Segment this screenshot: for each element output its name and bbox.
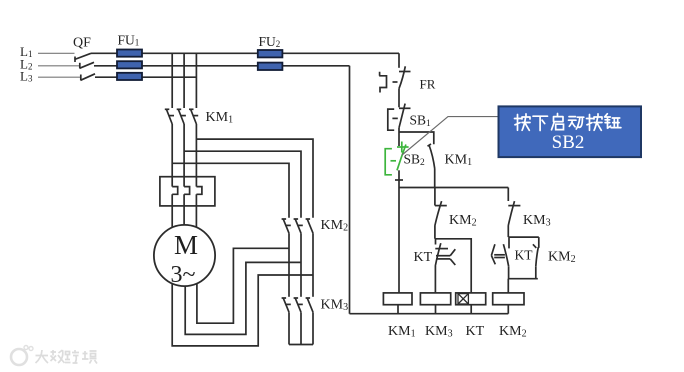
wire coil KM3 bottom stub bbox=[435, 305, 437, 313]
svg-text:M: M bbox=[174, 230, 198, 260]
contactor KM2 main contact 3 bbox=[306, 219, 313, 233]
wire main vertical to KM1 coil bbox=[398, 188, 400, 293]
fuse FU1-3 bbox=[117, 73, 142, 80]
fuse FU2 label bbox=[259, 34, 281, 49]
svg-text:KM2: KM2 bbox=[449, 213, 477, 229]
contactor KM1 main contact 1 bbox=[165, 109, 174, 124]
fuse FU1-2 bbox=[117, 61, 142, 68]
wire L3 lead-in bbox=[38, 76, 81, 78]
wire cascade 3 bbox=[172, 163, 289, 217]
svg-text:KT: KT bbox=[466, 324, 485, 339]
timer KT contact left bbox=[435, 243, 455, 266]
coil KM1 label bbox=[388, 324, 416, 340]
callout text line1 press start button bbox=[515, 114, 621, 131]
thermal relay FR link dash bbox=[393, 81, 398, 83]
button SB1 bracket bbox=[388, 109, 394, 130]
wire FR to SB1 bbox=[398, 89, 400, 108]
wire coil KT bottom stub bbox=[470, 305, 472, 313]
breaker QF pole 2 bbox=[80, 62, 95, 68]
timer KT left label bbox=[414, 250, 433, 265]
contactor KM1 latch label bbox=[445, 153, 473, 169]
thermal relay FR contact bbox=[399, 66, 411, 88]
callout pointer line bbox=[402, 117, 499, 155]
watermark text bbox=[36, 350, 98, 364]
coil KT label bbox=[466, 324, 485, 339]
button SB1 label bbox=[410, 113, 432, 130]
contactor KM2 interlock contact bbox=[533, 237, 539, 266]
wire KM2 pole1 down to KM3 bbox=[288, 233, 290, 297]
contactor KM3 aux contact bbox=[508, 201, 520, 225]
thermal relay FR label bbox=[420, 77, 436, 92]
timer KT contact right bbox=[491, 237, 509, 266]
wire V3 drop bbox=[195, 53, 197, 227]
svg-text:KM1: KM1 bbox=[445, 153, 473, 169]
wire KT contact top stub bbox=[435, 239, 437, 245]
breaker QF pole 3 bbox=[81, 74, 96, 81]
watermark logo bbox=[11, 346, 33, 366]
wire control bus bbox=[399, 187, 508, 189]
wire KM3 aux bottom bbox=[508, 226, 539, 238]
timer KT right label bbox=[515, 248, 534, 263]
svg-text:KM2: KM2 bbox=[321, 218, 349, 234]
wire control left rail from L2 bbox=[349, 66, 351, 314]
wire V1 drop bbox=[171, 53, 173, 228]
coil KM3 bbox=[420, 293, 450, 305]
wire motor tap 3 bbox=[172, 275, 313, 346]
wire motor tap 1 bbox=[197, 248, 289, 323]
wire KM2 aux bottom bbox=[435, 226, 471, 293]
motor M letter bbox=[174, 230, 198, 260]
svg-text:FU2: FU2 bbox=[259, 34, 281, 49]
wire coil KM1 bottom stub bbox=[397, 305, 399, 313]
contactor KM3 main label bbox=[321, 298, 349, 314]
wire control feed corner from L1 bbox=[398, 53, 400, 68]
wire SB1 to SB2 bbox=[398, 128, 400, 146]
fuse FU2-1 bbox=[258, 50, 283, 57]
coil KT bbox=[456, 293, 486, 305]
wire row2 QF to FU2 bbox=[94, 65, 350, 67]
svg-text:FU1: FU1 bbox=[118, 33, 140, 48]
motor M circle bbox=[154, 225, 215, 286]
wire motor tap 2 bbox=[185, 262, 301, 334]
wire bus to KM2 aux bbox=[434, 188, 436, 206]
wire latch branch top bbox=[399, 132, 434, 144]
svg-text:KM3: KM3 bbox=[321, 298, 349, 314]
button SB1 contact bbox=[399, 104, 411, 128]
fuse FU2-2 bbox=[258, 63, 283, 70]
contactor KM2 aux contact bbox=[435, 201, 447, 225]
contactor KM3 main contact 3 bbox=[306, 298, 313, 312]
wire V2 drop bbox=[183, 53, 185, 225]
wire cascade 1 bbox=[196, 139, 313, 218]
thermal relay FR heater jog 2 bbox=[184, 187, 190, 195]
svg-text:KM2: KM2 bbox=[548, 250, 576, 266]
wire coil KM2 bottom stub bbox=[507, 305, 509, 313]
contactor KM3 main contact 1 bbox=[282, 298, 291, 312]
button SB2 link dash green bbox=[391, 160, 397, 162]
breaker QF label bbox=[73, 36, 91, 51]
button SB2 label bbox=[404, 152, 426, 169]
thermal relay FR heater jog 3 bbox=[196, 187, 202, 195]
svg-text:SB2: SB2 bbox=[404, 152, 426, 169]
contactor KM2 main contact 1 bbox=[282, 219, 291, 233]
button SB2 bracket green bbox=[385, 149, 392, 175]
wire SB2 bottom with tick bbox=[395, 170, 403, 187]
breaker QF pole 1 bbox=[75, 53, 92, 62]
node L2 bbox=[20, 57, 32, 72]
thermal relay FR heater jog 1 bbox=[172, 187, 178, 195]
wire KM2 pole3 down to KM3 bbox=[312, 233, 314, 297]
contactor KM2 main contact 2 bbox=[294, 219, 303, 233]
button SB2 contact green bbox=[397, 142, 409, 171]
wire row1 QF to FU2 bbox=[91, 52, 399, 54]
svg-text:QF: QF bbox=[73, 36, 91, 51]
fuse FU1-1 bbox=[117, 50, 142, 57]
contactor KM1 main contact 3 bbox=[189, 109, 198, 124]
node L3 bbox=[20, 69, 33, 84]
wire row3 QF to V3 bbox=[95, 76, 196, 78]
wire KM2 pole2 down to KM3 bbox=[300, 233, 302, 297]
contactor KM3 main contact 2 bbox=[294, 298, 303, 312]
coil KM2 bbox=[493, 293, 524, 305]
node L1 bbox=[20, 44, 32, 59]
thermal relay FR heater box bbox=[160, 177, 215, 206]
wire L2 lead-in bbox=[38, 65, 80, 67]
wire KT to KM3 coil bbox=[434, 266, 436, 293]
contactor KM1 main contact 2 bbox=[177, 109, 186, 124]
contactor KM1 main label bbox=[206, 110, 234, 126]
thermal relay FR heater element bbox=[379, 72, 386, 93]
motor 3~ label bbox=[171, 262, 196, 288]
fuse FU1 label bbox=[118, 33, 140, 48]
contactor KM2 aux label bbox=[449, 213, 477, 229]
wire L1 lead-in bbox=[38, 52, 75, 54]
wire KM1 latch bottom bbox=[434, 169, 436, 188]
svg-text:KM1: KM1 bbox=[388, 324, 416, 340]
svg-text:3~: 3~ bbox=[171, 262, 196, 288]
wire bus elbow to KM3 aux bbox=[507, 188, 509, 202]
svg-text:KM3: KM3 bbox=[523, 213, 551, 229]
button SB1 link dash bbox=[392, 117, 397, 119]
contactor KM3 aux label bbox=[523, 213, 551, 229]
callout text line2 SB2 bbox=[552, 132, 585, 153]
coil KM1 bbox=[383, 293, 412, 305]
coil KM3 label bbox=[425, 324, 453, 340]
svg-text:SB2: SB2 bbox=[552, 132, 585, 153]
wire parallel pair bottom bbox=[508, 266, 538, 293]
svg-text:FR: FR bbox=[420, 77, 436, 92]
contactor KM2 interlock label bbox=[548, 250, 576, 266]
svg-text:KM2: KM2 bbox=[499, 324, 527, 340]
svg-text:KT: KT bbox=[515, 248, 534, 263]
coil KM2 label bbox=[499, 324, 527, 340]
callout box SB2 bbox=[499, 106, 642, 157]
wire cascade 2 bbox=[184, 151, 301, 218]
wire KM3 star bar bbox=[289, 312, 313, 344]
wire bottom return bus bbox=[350, 313, 509, 315]
svg-text:KM1: KM1 bbox=[206, 110, 234, 126]
contactor KM2 main label bbox=[321, 218, 349, 234]
svg-text:KT: KT bbox=[414, 250, 433, 265]
svg-text:SB1: SB1 bbox=[410, 113, 432, 130]
contactor KM1 latch contact bbox=[428, 144, 435, 169]
svg-text:KM3: KM3 bbox=[425, 324, 453, 340]
